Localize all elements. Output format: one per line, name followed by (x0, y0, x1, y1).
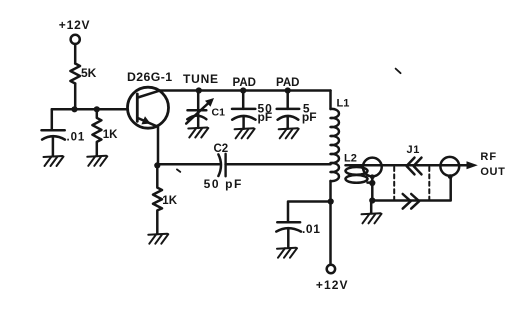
svg-text:.01: .01 (67, 131, 86, 143)
svg-text:+12V: +12V (316, 278, 349, 292)
svg-text:1K: 1K (162, 195, 177, 207)
svg-text:PAD: PAD (276, 77, 299, 89)
svg-text:TUNE: TUNE (183, 72, 219, 86)
svg-text:L2: L2 (344, 152, 357, 164)
svg-text:L1: L1 (337, 97, 350, 109)
svg-text:C1: C1 (212, 107, 226, 119)
svg-text:50 pF: 50 pF (204, 177, 243, 191)
svg-text:1K: 1K (103, 129, 118, 141)
svg-text:.01: .01 (302, 222, 320, 236)
svg-text:J1: J1 (407, 144, 420, 156)
svg-text:5K: 5K (81, 66, 97, 80)
svg-text:pF: pF (302, 110, 317, 124)
svg-text:+12V: +12V (59, 18, 91, 32)
svg-text:pF: pF (258, 110, 273, 124)
svg-text:C2: C2 (214, 143, 229, 155)
svg-text:RF: RF (480, 151, 497, 163)
svg-text:OUT: OUT (480, 166, 505, 178)
svg-text:D26G-1: D26G-1 (127, 70, 172, 84)
svg-text:PAD: PAD (233, 77, 256, 89)
